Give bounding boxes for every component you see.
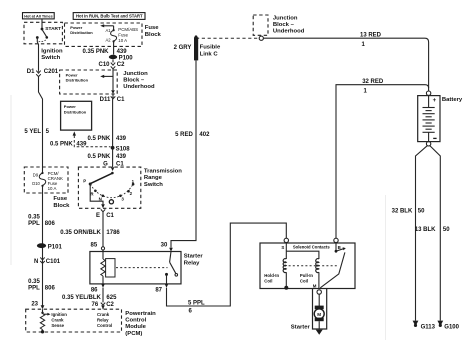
svg-text:Hold-In: Hold-In <box>264 273 279 278</box>
TR switch entry arrow and arm to P <box>90 167 114 183</box>
svg-text:Sense: Sense <box>51 323 64 328</box>
svg-text:439: 439 <box>117 49 128 55</box>
svg-text:0.35 YEL/BLK: 0.35 YEL/BLK <box>62 295 102 301</box>
svg-text:Battery: Battery <box>442 97 463 103</box>
solenoid mechanical link dashed <box>289 265 338 267</box>
svg-text:PPL: PPL <box>28 286 40 292</box>
scan artifact lines <box>11 95 386 340</box>
svg-text:G: G <box>103 161 108 167</box>
fusible link C <box>174 35 221 60</box>
starter motor housing <box>313 289 327 330</box>
wire: ignition switch pivot down to C201 <box>37 38 38 70</box>
solenoid contact switch <box>320 243 346 288</box>
wire label 13 BLK 50 <box>415 227 450 233</box>
wire label 0.35 PNK 439 <box>82 49 127 55</box>
TR switch contact arc P R N 3 2 1 <box>83 179 134 204</box>
svg-text:E: E <box>96 213 100 219</box>
svg-text:86: 86 <box>91 288 98 294</box>
wire label 0.35 PPL 806 (lower) <box>28 279 55 291</box>
svg-text:23: 23 <box>31 301 38 307</box>
svg-text:0.5 PNK: 0.5 PNK <box>88 154 111 160</box>
svg-text:439: 439 <box>116 154 127 160</box>
ignition switch S1 dashed box <box>24 22 62 44</box>
svg-text:Module: Module <box>125 324 146 330</box>
svg-text:Relay: Relay <box>97 318 109 323</box>
svg-text:Fuse: Fuse <box>53 196 67 202</box>
node: junction block output circle <box>259 36 263 40</box>
svg-text:PPL: PPL <box>28 221 40 227</box>
svg-text:Coil: Coil <box>264 278 272 283</box>
relay mechanical link dashed <box>116 267 168 269</box>
svg-text:50: 50 <box>418 209 425 215</box>
dashed branch wire to power distribution <box>73 131 111 146</box>
label Junction Block - Underhood (left) <box>123 71 155 90</box>
power distribution solid box <box>61 101 92 130</box>
svg-text:402: 402 <box>199 132 210 138</box>
svg-text:0.5 PNK: 0.5 PNK <box>88 136 111 142</box>
junction at solenoid case <box>284 286 288 290</box>
svg-text:Junction: Junction <box>273 15 298 21</box>
svg-text:S108: S108 <box>116 147 131 153</box>
svg-text:Hot at All Times: Hot at All Times <box>24 15 52 19</box>
svg-text:Junction: Junction <box>123 71 148 77</box>
svg-text:Solenoid Contacts: Solenoid Contacts <box>293 244 330 249</box>
svg-text:Control: Control <box>125 318 146 324</box>
svg-text:87: 87 <box>155 288 162 294</box>
svg-text:Ignition: Ignition <box>41 49 63 55</box>
wire: fuse D10 down to PCM pin 23 <box>42 193 44 306</box>
wire label 32 BLK 50 <box>392 209 426 215</box>
svg-text:Switch: Switch <box>144 182 163 188</box>
svg-text:A2: A2 <box>106 38 112 43</box>
svg-text:Ignition: Ignition <box>51 312 67 317</box>
wire: fusible link down to relay 30 <box>171 60 196 247</box>
svg-text:Coil: Coil <box>300 278 308 283</box>
svg-text:C101: C101 <box>46 259 61 265</box>
splice S108 <box>111 146 131 153</box>
wire: fuse A2 down to P100 <box>113 41 115 54</box>
connector C101 pin N <box>34 257 61 265</box>
svg-text:C1: C1 <box>117 97 125 103</box>
svg-text:Fusible: Fusible <box>200 45 221 51</box>
solenoid M terminal <box>313 283 322 294</box>
wire label 0.35 ORN/BLK 1786 <box>60 230 120 236</box>
svg-text:0.35 ORN/BLK: 0.35 ORN/BLK <box>60 230 101 236</box>
dashed wire: junction block to fusible link <box>196 37 259 39</box>
TR switch bracket from P to output <box>90 185 105 209</box>
wire label 0.35 PPL 806 (upper) <box>28 214 55 226</box>
label Fuse Block (lower) <box>53 196 70 209</box>
svg-text:G113: G113 <box>421 324 436 330</box>
svg-text:10 A: 10 A <box>118 38 127 43</box>
connector P100 grommet <box>109 55 133 62</box>
relay coil <box>101 259 115 284</box>
label Ignition Switch <box>41 49 63 62</box>
svg-text:C1: C1 <box>116 161 124 167</box>
label Powertrain Control Module (PCM) <box>125 311 156 337</box>
svg-text:0.35: 0.35 <box>28 279 40 285</box>
label Transmission Range Switch <box>144 169 182 188</box>
ground G100 <box>437 321 459 331</box>
wire: TR switch E down to relay 85 <box>102 212 104 247</box>
svg-text:Relay: Relay <box>184 260 200 266</box>
label box: Hot in RUN, Bulb Test and START <box>73 13 145 20</box>
svg-text:5 YEL: 5 YEL <box>24 129 41 135</box>
relay pin 85 <box>91 243 105 259</box>
svg-text:Pull-In: Pull-In <box>300 273 314 278</box>
svg-text:S: S <box>281 245 284 250</box>
svg-text:439: 439 <box>116 136 127 142</box>
svg-text:C1: C1 <box>106 213 114 219</box>
svg-text:32 RED: 32 RED <box>362 79 384 85</box>
junction block underhood dashed box (top right) <box>253 15 305 35</box>
svg-text:N: N <box>34 259 38 265</box>
svg-text:806: 806 <box>45 286 56 292</box>
fuse PCM/CRANK 10A <box>32 167 63 193</box>
svg-text:Link C: Link C <box>200 51 219 57</box>
ground at starter <box>316 330 323 335</box>
svg-text:Block: Block <box>145 32 162 38</box>
svg-text:D9: D9 <box>33 173 39 178</box>
svg-text:10 A: 10 A <box>48 186 57 191</box>
junction block power distribution arrow <box>66 72 113 82</box>
svg-text:30: 30 <box>161 243 168 249</box>
hold-in coil <box>264 259 286 287</box>
svg-text:0.5 PNK: 0.5 PNK <box>50 142 73 148</box>
svg-text:M: M <box>313 283 317 288</box>
svg-text:Distribution: Distribution <box>66 77 89 82</box>
starter relay box <box>90 252 203 284</box>
svg-text:Distribution: Distribution <box>70 30 93 35</box>
svg-text:2 GRY: 2 GRY <box>174 45 192 51</box>
svg-text:C2: C2 <box>106 302 114 308</box>
svg-text:Underhood: Underhood <box>123 84 155 90</box>
svg-text:C201: C201 <box>44 69 59 75</box>
svg-text:76: 76 <box>92 302 99 308</box>
wire label 0.5 PNK 439 (branch) <box>50 142 87 148</box>
svg-text:439: 439 <box>76 142 87 148</box>
wire: 13 RED from junction block to battery <box>263 38 428 91</box>
ignition switch contacts and START arm <box>36 19 61 42</box>
fuse PCM/ABS 10A pins A1 A2 <box>106 26 139 43</box>
svg-text:Control: Control <box>97 323 112 328</box>
svg-text:(PCM): (PCM) <box>125 331 142 337</box>
svg-text:C2: C2 <box>117 62 125 68</box>
svg-text:0.35 PNK: 0.35 PNK <box>82 49 109 55</box>
connector C201 pin D1 <box>27 69 59 77</box>
PCM input label: Ignition Crank Sense <box>51 312 67 328</box>
fuse block (top) dashed box <box>65 23 143 46</box>
svg-text:+: + <box>433 98 437 104</box>
svg-text:5 RED: 5 RED <box>175 132 193 138</box>
connector C2 pin 76 <box>92 302 115 309</box>
battery <box>418 91 463 146</box>
svg-text:Underhood: Underhood <box>273 29 305 35</box>
label box: Hot at All Times <box>23 13 55 19</box>
solenoid B terminal <box>334 238 341 250</box>
wire: 32 RED branch to solenoid B <box>336 85 429 239</box>
svg-text:START: START <box>45 26 61 32</box>
wire: battery negative to ground G100 <box>430 146 441 321</box>
wire: battery negative to ground G113 <box>416 146 428 321</box>
svg-text:13 RED: 13 RED <box>360 33 382 39</box>
svg-text:50: 50 <box>443 227 450 233</box>
solenoid S terminal <box>281 238 288 259</box>
svg-text:1786: 1786 <box>106 230 120 236</box>
svg-text:13 BLK: 13 BLK <box>415 227 436 233</box>
wire label 5 YEL 5 <box>24 129 49 135</box>
label Fuse Block (top) <box>145 25 162 38</box>
wire label 0.5 PNK 439 (above S108) <box>88 136 127 142</box>
svg-text:85: 85 <box>91 243 98 249</box>
junction block underhood dashed box (left) <box>60 70 118 94</box>
svg-text:D11: D11 <box>100 97 111 103</box>
fuse block power distribution feed arrow <box>70 24 113 35</box>
svg-text:Power: Power <box>64 104 76 109</box>
transmission range switch dashed box <box>78 167 140 208</box>
fuse block (lower) dashed box <box>24 167 68 193</box>
resistor: ignition crank sense input <box>40 309 50 333</box>
svg-text:Powertrain: Powertrain <box>125 311 156 317</box>
svg-text:Block –: Block – <box>123 78 145 84</box>
ground G113 <box>413 321 436 331</box>
wire label 32 RED 1 <box>362 79 384 94</box>
connector C1 pin G <box>103 161 124 167</box>
connector C1 pin E <box>96 209 115 219</box>
wire label 0.35 YEL/BLK 625 <box>62 295 117 301</box>
wire: D11 down to S108 and TR switch <box>112 94 114 167</box>
PCM output label: Crank Relay Control <box>97 312 112 328</box>
wire: relay 87 to solenoid S terminal <box>167 223 287 306</box>
relay pin 87 <box>155 284 168 294</box>
relay pin 30 <box>161 243 173 252</box>
svg-text:Fuse: Fuse <box>118 33 128 38</box>
pull-in coil feed wire <box>286 251 319 259</box>
wire: C201 down with jog to lower fuse block <box>39 77 43 167</box>
wire through junction block <box>111 69 115 94</box>
svg-text:Transmission: Transmission <box>144 169 182 175</box>
svg-text:Crank: Crank <box>97 312 110 317</box>
svg-text:Fuse: Fuse <box>145 25 159 31</box>
wire label 0.5 PNK 439 (below S108) <box>88 154 127 160</box>
connector P101 grommet <box>37 243 63 250</box>
svg-text:P100: P100 <box>119 56 134 62</box>
svg-text:Block –: Block – <box>273 22 295 28</box>
PCM module dashed box <box>26 309 122 332</box>
svg-text:Starter: Starter <box>184 253 204 259</box>
svg-text:D1: D1 <box>27 69 35 75</box>
connector C1 pin D11 <box>100 96 126 103</box>
relay pin 86 <box>91 284 105 303</box>
starter solenoid box <box>260 243 355 289</box>
svg-text:G100: G100 <box>444 324 459 330</box>
svg-text:Hot in RUN, Bulb Test and STAR: Hot in RUN, Bulb Test and START <box>76 14 143 19</box>
svg-text:D10: D10 <box>32 181 40 186</box>
svg-text:806: 806 <box>45 221 56 227</box>
wire label 5 PPL 6 <box>188 300 205 314</box>
pull-in coil <box>300 259 319 289</box>
svg-text:32 BLK: 32 BLK <box>392 209 413 215</box>
svg-text:Range: Range <box>144 175 163 181</box>
svg-text:M: M <box>317 312 321 317</box>
PCM pin 23 <box>31 301 44 309</box>
svg-text:Block: Block <box>53 203 70 209</box>
svg-text:C10: C10 <box>98 62 110 68</box>
starter motor <box>291 294 324 330</box>
svg-text:Starter: Starter <box>291 325 311 331</box>
svg-text:Crank: Crank <box>51 318 64 323</box>
svg-text:5 PPL: 5 PPL <box>188 300 205 306</box>
svg-text:PCM/ABS: PCM/ABS <box>118 27 138 32</box>
svg-text:Switch: Switch <box>41 55 60 61</box>
svg-text:0.35: 0.35 <box>28 214 40 220</box>
wire label 5 RED 402 <box>175 132 210 138</box>
relay switch contact 30-87 <box>165 252 178 284</box>
connector C2/C10 chevron <box>98 60 125 69</box>
svg-text:P101: P101 <box>48 245 63 251</box>
svg-text:P: P <box>83 179 86 184</box>
svg-text:625: 625 <box>106 295 117 301</box>
svg-text:Distribution: Distribution <box>64 109 87 114</box>
wire label 13 RED 1 <box>360 33 382 49</box>
